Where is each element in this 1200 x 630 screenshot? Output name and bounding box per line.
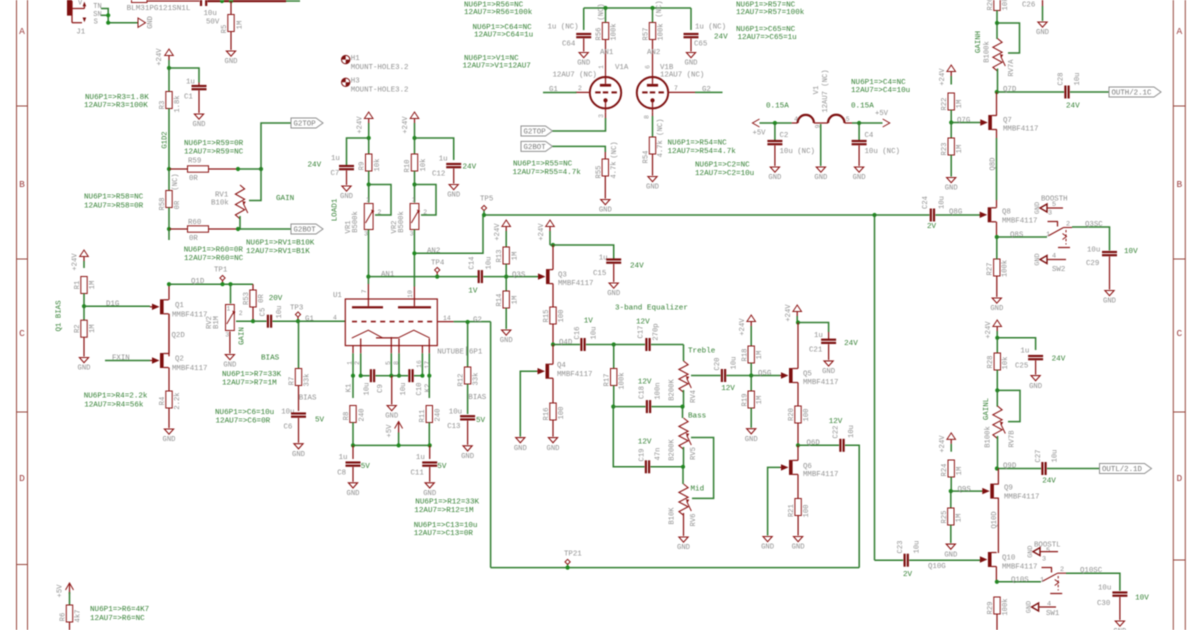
svg-text:2: 2 <box>1060 566 1064 574</box>
svg-text:1V: 1V <box>468 288 478 296</box>
mount hole H3 <box>342 78 409 95</box>
junction 24V rail a <box>220 0 224 3</box>
svg-text:B100k: B100k <box>985 426 993 448</box>
svg-text:OUTH/2.1C: OUTH/2.1C <box>1112 90 1152 98</box>
svg-text:C24: C24 <box>922 196 930 209</box>
resistor R15 100 <box>543 307 566 345</box>
svg-text:TP1: TP1 <box>214 267 228 275</box>
annotation 12V at C18 <box>638 379 652 387</box>
svg-text:B100k: B100k <box>983 41 991 63</box>
ground below R55 <box>599 200 612 215</box>
ground flag GND at J1 <box>138 16 155 29</box>
svg-text:R14: R14 <box>496 294 504 307</box>
svg-text:1: 1 <box>1040 577 1044 585</box>
svg-text:33k: 33k <box>303 374 311 387</box>
svg-text:NU6P1=>C2=NC: NU6P1=>C2=NC <box>695 162 750 170</box>
svg-text:3-band Equalizer: 3-band Equalizer <box>615 305 688 313</box>
capacitor C12 1u <box>432 156 477 184</box>
svg-text:10u (NC): 10u (NC) <box>780 148 815 156</box>
svg-text:10k: 10k <box>1002 357 1010 370</box>
junction K2 b <box>427 374 431 378</box>
svg-text:GND: GND <box>1025 601 1033 613</box>
svg-text:Q1 BIAS: Q1 BIAS <box>56 300 64 332</box>
power +24V above R10 <box>402 112 419 138</box>
svg-text:GND: GND <box>347 490 360 498</box>
svg-text:100k: 100k <box>610 23 618 40</box>
svg-text:+24V: +24V <box>785 304 793 322</box>
junction AN1 <box>366 275 370 279</box>
svg-text:10u (NC): 10u (NC) <box>865 148 900 156</box>
svg-text:+5V: +5V <box>56 584 64 598</box>
svg-text:TN: TN <box>93 3 101 11</box>
junction RV4 bottom <box>680 405 684 409</box>
svg-text:12AU7=>C4=10u: 12AU7=>C4=10u <box>851 87 910 95</box>
junction R3 top <box>167 66 171 70</box>
svg-text:1u: 1u <box>416 454 425 462</box>
note NU6P1 R58 <box>84 194 144 211</box>
connector J1 input jack <box>67 0 102 36</box>
ground below R27 <box>990 298 1003 313</box>
switch SW1 <box>1025 555 1066 618</box>
svg-text:Q8G: Q8G <box>949 209 962 217</box>
svg-text:4k7: 4k7 <box>74 610 82 623</box>
svg-text:10k: 10k <box>420 159 428 172</box>
svg-text:5V: 5V <box>315 417 325 425</box>
wire junction to C1 <box>169 68 199 83</box>
svg-text:+5V: +5V <box>386 424 394 438</box>
svg-text:C30: C30 <box>1097 600 1110 608</box>
resistor R4 2.2k <box>159 391 182 428</box>
capacitor C6 10u <box>281 409 324 443</box>
svg-text:AN2: AN2 <box>427 248 440 256</box>
svg-text:5: 5 <box>385 361 392 365</box>
capacitor C10 10u <box>399 369 424 395</box>
ground below R25 <box>944 544 957 559</box>
svg-text:+5V: +5V <box>875 110 889 118</box>
capacitor C26 1u <box>1022 0 1043 21</box>
test point TP5 <box>480 196 493 216</box>
junction AN2 VR2 <box>412 251 416 255</box>
svg-text:RV7B: RV7B <box>1008 430 1016 448</box>
resistor R5 1M <box>221 1 245 50</box>
svg-text:1: 1 <box>346 361 353 365</box>
svg-text:GAINL: GAINL <box>983 398 991 420</box>
wire C18 col down <box>613 407 644 467</box>
svg-text:GND: GND <box>1027 545 1035 557</box>
junction Q3 drain C15 <box>551 243 555 247</box>
svg-text:100: 100 <box>803 409 811 422</box>
svg-text:1M: 1M <box>956 100 964 109</box>
svg-text:G2BOT: G2BOT <box>524 144 547 152</box>
note NU6P1 C64 <box>473 24 534 39</box>
svg-text:1u: 1u <box>439 156 448 164</box>
capacitor C23 10u <box>875 541 981 580</box>
power +24V above R9 <box>356 112 373 138</box>
svg-text:Q9: Q9 <box>1004 484 1013 492</box>
svg-text:V1A: V1A <box>615 64 629 72</box>
svg-text:10V: 10V <box>1124 248 1138 256</box>
svg-text:GND: GND <box>599 207 612 215</box>
svg-text:8: 8 <box>644 115 651 119</box>
transistor Q4 MMBF4117 <box>537 345 592 404</box>
transistor Q5 MMBF4117 <box>780 323 838 407</box>
note NU6P1 R57 <box>736 2 805 18</box>
svg-text:R3: R3 <box>159 101 167 110</box>
capacitor C29 10u <box>1086 247 1138 290</box>
power +5V above R6 <box>56 583 73 605</box>
svg-text:12AU7=>R59=NC: 12AU7=>R59=NC <box>184 149 244 157</box>
svg-text:12AU7=>V1=12AU7: 12AU7=>V1=12AU7 <box>463 63 531 71</box>
svg-text:50V: 50V <box>206 19 220 27</box>
svg-text:G1D2: G1D2 <box>161 131 169 148</box>
junction R60 left <box>167 227 171 231</box>
capacitor C64 1u (NC) <box>548 8 592 52</box>
junction R9 top <box>367 136 371 140</box>
svg-text:17: 17 <box>424 361 431 369</box>
ground below C6 <box>292 444 305 459</box>
svg-text:Q7G: Q7G <box>957 117 970 125</box>
svg-text:12V: 12V <box>829 418 843 426</box>
junction TP21 <box>566 566 570 570</box>
svg-text:BIAS: BIAS <box>299 395 317 403</box>
svg-text:R10: R10 <box>404 160 412 173</box>
junction RV7A top <box>995 21 999 25</box>
capacitor C65 1u (NC) <box>684 8 729 52</box>
svg-text:+5V: +5V <box>753 129 767 137</box>
svg-text:MMBF4117: MMBF4117 <box>557 371 592 379</box>
svg-text:Q3: Q3 <box>558 271 567 279</box>
potentiometer RV7B B100k <box>985 390 1017 468</box>
svg-text:GND: GND <box>577 60 590 68</box>
junction Q5 drain C21 <box>796 320 800 324</box>
wire G1 to U1 pin4 <box>298 315 345 324</box>
junction R56 top <box>603 6 607 10</box>
svg-text:NU6P1=>R59=0R: NU6P1=>R59=0R <box>184 140 244 148</box>
wire anode supply bus <box>584 7 691 9</box>
svg-text:+24V: +24V <box>156 48 164 66</box>
svg-text:MMBF4117: MMBF4117 <box>1002 564 1037 572</box>
wire G2BOT to R55 <box>553 146 606 161</box>
net label Q1 BIAS <box>56 300 64 332</box>
junction Q5 gate node <box>749 373 753 377</box>
junction G2TOP branch <box>259 167 263 171</box>
svg-text:R12: R12 <box>458 374 466 387</box>
svg-text:1M: 1M <box>956 145 964 154</box>
resistor R17 100k <box>603 345 626 407</box>
potentiometer RV4 treble B200K <box>668 345 698 407</box>
junction heater left <box>773 121 777 125</box>
svg-text:4: 4 <box>1047 600 1051 608</box>
svg-text:100: 100 <box>558 310 566 323</box>
svg-text:MMBF4117: MMBF4117 <box>558 280 593 288</box>
svg-text:R18: R18 <box>741 349 749 362</box>
junction Q9 drain node <box>995 466 999 470</box>
ground below RV2 <box>223 355 236 370</box>
U1 filament pins K1 <box>346 339 362 393</box>
power +24V above R28 <box>985 320 1002 339</box>
svg-text:GND: GND <box>193 121 206 129</box>
ground below pin5 <box>385 376 398 421</box>
ground below R2 <box>78 358 91 373</box>
wire Q7D to C28 <box>997 86 1064 94</box>
svg-text:24V: 24V <box>844 340 858 348</box>
svg-text:4: 4 <box>1052 252 1056 260</box>
mount hole H1 <box>342 55 409 72</box>
capacitor C30 10u <box>1097 585 1149 621</box>
ground below C29 <box>1103 291 1116 306</box>
note NU6P1 R6 <box>90 606 149 623</box>
ground Q4 gate <box>514 438 527 453</box>
svg-text:C: C <box>19 328 25 339</box>
note NU6P1 C13 <box>414 522 478 538</box>
svg-text:C28: C28 <box>1058 73 1066 86</box>
annotation 12V at C22 <box>829 418 843 426</box>
svg-text:R24: R24 <box>941 464 949 477</box>
transistor Q1 MMBF4117 <box>150 284 207 356</box>
svg-text:Q8: Q8 <box>1002 209 1011 217</box>
svg-text:1M: 1M <box>89 281 97 290</box>
svg-text:1: 1 <box>598 65 605 69</box>
svg-text:Q10SC: Q10SC <box>1080 567 1103 575</box>
svg-text:GND: GND <box>646 184 659 192</box>
svg-text:TP4: TP4 <box>431 260 445 268</box>
capacitor C2 10u (NC) <box>767 123 815 166</box>
capacitor C16 10u <box>574 318 614 351</box>
svg-text:24V: 24V <box>1066 103 1080 111</box>
svg-text:100n: 100n <box>654 382 662 399</box>
power +24V above R18 <box>739 315 756 346</box>
tube V1B 12AU7 (NC) <box>637 64 705 112</box>
svg-text:U1: U1 <box>333 292 342 300</box>
svg-text:R1: R1 <box>74 281 82 290</box>
ground below C64 <box>577 53 590 68</box>
note NU6P1 R60 <box>184 247 244 264</box>
power +24V above R3 <box>156 48 173 68</box>
svg-text:R55: R55 <box>595 166 603 179</box>
flag BOOSTL gnd arrow <box>1027 542 1061 558</box>
svg-text:R19: R19 <box>741 394 749 407</box>
svg-text:16: 16 <box>416 360 423 368</box>
svg-text:10u: 10u <box>485 257 493 270</box>
ground below C21 <box>822 361 835 376</box>
svg-text:NU6P1=>R12=33K: NU6P1=>R12=33K <box>415 499 479 507</box>
svg-text:BLM31PG121SN1L: BLM31PG121SN1L <box>127 5 191 13</box>
capacitor C14 10u <box>437 257 506 296</box>
wire AN1 to U1 pin7 <box>361 277 368 299</box>
svg-text:Q10S: Q10S <box>1011 576 1029 584</box>
svg-text:C13: C13 <box>447 423 460 431</box>
svg-text:8: 8 <box>393 361 400 365</box>
svg-text:10u: 10u <box>1074 73 1082 86</box>
svg-text:B: B <box>19 179 25 190</box>
net label LOAD1 <box>332 198 340 221</box>
svg-text:MMBF4117: MMBF4117 <box>1002 218 1037 226</box>
svg-text:NU6P1=>C13=10u: NU6P1=>C13=10u <box>414 522 478 530</box>
wire R9 loop to VR1 wiper <box>369 185 391 216</box>
svg-text:D: D <box>19 473 25 484</box>
net label Q10D <box>991 511 999 528</box>
transistor Q6 MMBF4117 <box>780 445 838 498</box>
svg-text:GND: GND <box>853 174 866 182</box>
svg-text:B200K: B200K <box>668 439 676 461</box>
resistor R14 1M <box>496 277 519 329</box>
svg-text:12V: 12V <box>636 319 650 327</box>
net label BIAS green <box>261 355 280 363</box>
svg-text:GND: GND <box>461 453 474 461</box>
test point TP21 <box>564 551 582 568</box>
svg-text:R57: R57 <box>642 28 650 41</box>
ground below R16 <box>547 438 560 453</box>
ground below RV6 <box>677 537 690 552</box>
note NU6P1 R54 <box>668 140 737 157</box>
svg-text:0R: 0R <box>174 200 182 209</box>
svg-text:0R: 0R <box>258 294 266 303</box>
resistor R26 10k <box>987 0 1010 23</box>
svg-text:5: 5 <box>1046 547 1050 555</box>
svg-text:BIAS: BIAS <box>261 355 280 363</box>
svg-text:1u: 1u <box>186 79 195 87</box>
ground below C4 <box>853 167 866 182</box>
svg-text:R22: R22 <box>941 98 949 111</box>
capacitor C25 1u <box>1015 348 1066 375</box>
svg-text:GND: GND <box>547 445 560 453</box>
svg-text:C64: C64 <box>562 41 576 49</box>
svg-text:R53: R53 <box>243 292 251 305</box>
annotation 0.15A left <box>766 103 789 111</box>
svg-text:Treble: Treble <box>688 348 716 356</box>
svg-text:R25: R25 <box>941 511 949 524</box>
svg-text:R17: R17 <box>603 374 611 387</box>
svg-text:1.8k: 1.8k <box>174 95 182 112</box>
resistor R54 4.7k (NC) <box>642 112 665 175</box>
ground below R21 <box>792 537 805 552</box>
junction R17 C18 <box>611 405 615 409</box>
svg-text:C4: C4 <box>865 132 874 140</box>
ground below C7 <box>340 186 353 201</box>
capacitor C9 10u <box>361 369 392 395</box>
svg-text:C65: C65 <box>694 41 707 49</box>
svg-text:R4: R4 <box>159 397 167 406</box>
svg-text:R58: R58 <box>159 198 167 211</box>
wire SW2 to C29 <box>1072 221 1110 251</box>
svg-text:1M: 1M <box>511 296 519 305</box>
svg-text:R28: R28 <box>987 356 995 369</box>
wire bottom G2 bus <box>491 567 860 569</box>
svg-text:C11: C11 <box>411 470 425 478</box>
svg-text:NU6P1=>R7=33K: NU6P1=>R7=33K <box>222 371 282 379</box>
svg-text:5V: 5V <box>437 463 447 471</box>
svg-text:1M: 1M <box>956 514 964 523</box>
svg-text:12AU7=>R6=NC: 12AU7=>R6=NC <box>90 615 145 623</box>
flag G2BOT right <box>521 141 553 152</box>
resistor R1 1M <box>74 277 97 307</box>
wire RV1 bottom to G2BOT <box>238 216 291 229</box>
ground below C1 <box>193 114 206 129</box>
ground below C26 <box>1036 22 1049 37</box>
wire treble wiper to C20 <box>691 375 721 377</box>
annotation 20V at C5 <box>269 295 283 303</box>
svg-text:+24V: +24V <box>71 253 79 271</box>
svg-text:C15: C15 <box>593 270 606 278</box>
svg-text:(NC): (NC) <box>611 141 619 158</box>
svg-text:3: 3 <box>410 231 414 238</box>
svg-text:R15: R15 <box>543 310 551 323</box>
svg-text:24V: 24V <box>714 34 728 42</box>
svg-text:R59: R59 <box>188 158 201 166</box>
svg-text:Q1: Q1 <box>175 302 184 310</box>
capacitor C7 1u <box>331 155 355 185</box>
net label GAINH <box>975 31 983 53</box>
note NU6P1 R3 <box>84 94 149 110</box>
resistor R22 1M <box>941 93 964 123</box>
svg-text:SW2: SW2 <box>1052 266 1065 274</box>
power +24V above R22 <box>939 65 956 86</box>
svg-text:+24V: +24V <box>939 435 947 453</box>
svg-text:Q2: Q2 <box>175 356 184 364</box>
resistor R6 4k7 <box>59 605 82 630</box>
svg-text:24V: 24V <box>630 263 644 271</box>
capacitor C63 10u 50V <box>200 0 220 27</box>
net label Q8D <box>989 158 997 171</box>
svg-text:GND: GND <box>768 174 781 182</box>
inductor V1 heater 12AU7 (NC) <box>792 69 852 128</box>
power +5V above filament <box>386 422 403 446</box>
svg-text:GND: GND <box>1036 29 1049 37</box>
svg-text:Q4: Q4 <box>557 362 566 370</box>
svg-text:C12: C12 <box>432 171 445 179</box>
svg-text:GND: GND <box>385 413 398 421</box>
svg-text:GND: GND <box>223 362 236 370</box>
svg-text:10u: 10u <box>939 196 947 209</box>
svg-text:2V: 2V <box>927 223 937 231</box>
wire to G2TOP flag <box>238 123 291 169</box>
flag OUTL/2.1D <box>1100 464 1152 475</box>
wire AN2 to U1 pin10 <box>407 253 414 299</box>
svg-text:1: 1 <box>227 306 231 313</box>
wire G1 to V1A grid <box>543 85 582 94</box>
svg-text:S: S <box>94 18 98 26</box>
svg-text:Q4D: Q4D <box>559 339 573 347</box>
svg-text:NU6P1=>R55=NC: NU6P1=>R55=NC <box>513 161 573 169</box>
svg-text:R9: R9 <box>358 162 366 171</box>
svg-text:MMBF4117: MMBF4117 <box>1003 126 1038 134</box>
junction Q8 source <box>995 235 999 239</box>
svg-text:R2: R2 <box>74 324 82 333</box>
svg-text:G2TOP: G2TOP <box>294 121 317 129</box>
svg-text:C29: C29 <box>1086 260 1099 268</box>
svg-text:0R: 0R <box>189 175 198 183</box>
power +24V above R13 <box>494 220 511 247</box>
note NU6P1 RV1 <box>246 240 315 257</box>
svg-text:NU6P1=>C4=NC: NU6P1=>C4=NC <box>851 79 906 87</box>
resistor R28 10k <box>987 338 1010 391</box>
wire Q6 gate to ground <box>768 467 780 535</box>
svg-text:12AU7 (NC): 12AU7 (NC) <box>660 72 704 80</box>
potentiometer RV7A B100k <box>983 23 1016 92</box>
note NU6P1 R55 <box>513 161 582 178</box>
svg-text:C1: C1 <box>184 94 193 102</box>
wire heater center tap <box>820 124 822 166</box>
svg-text:C27: C27 <box>1035 450 1043 463</box>
capacitor C27 10u <box>1035 450 1100 486</box>
junction RV7B top <box>995 388 999 392</box>
svg-text:GAINH: GAINH <box>975 31 983 53</box>
net label AN2 <box>645 49 661 69</box>
junction R57 top <box>650 6 654 10</box>
svg-text:R27: R27 <box>986 263 994 276</box>
svg-text:C14: C14 <box>468 257 476 270</box>
svg-text:G1: G1 <box>305 316 314 324</box>
